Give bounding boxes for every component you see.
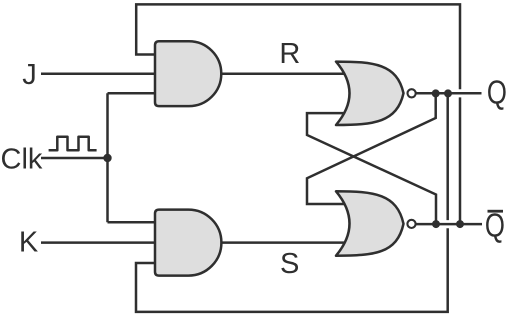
junction dot Clk bbox=[103, 154, 111, 162]
junction dot Q feedback bbox=[444, 89, 452, 97]
wire top feedback from Q-bar to AND A1 top input bbox=[136, 4, 460, 89]
AND gate A2 bbox=[155, 210, 221, 276]
wire Q output bbox=[415, 92, 482, 95]
wire cross-couple Q to NOR G2 input bbox=[307, 93, 436, 204]
NOR gate G1 bbox=[336, 62, 404, 125]
wire Clk input bbox=[41, 157, 108, 160]
wire J input bbox=[41, 72, 160, 75]
svg-text:K: K bbox=[19, 227, 39, 259]
wire Clk branch to AND A1 bbox=[108, 92, 161, 95]
svg-text:J: J bbox=[22, 59, 37, 91]
junction dot Q-bar feedback bbox=[456, 220, 464, 228]
wire K input bbox=[41, 241, 160, 244]
svg-text:Q: Q bbox=[487, 74, 507, 111]
AND gate A1 bbox=[155, 41, 221, 106]
NOR G2 output bubble bbox=[407, 220, 415, 228]
svg-text:Q: Q bbox=[485, 208, 505, 245]
wire R net from AND A1 to NOR G1 bbox=[220, 72, 350, 75]
NOR G1 output bubble bbox=[408, 89, 416, 97]
wire bottom feedback from Q to AND A2 bottom input bbox=[446, 93, 449, 220]
wire Q-bar output bbox=[415, 223, 482, 226]
wire Clk branch to AND A2 bbox=[108, 221, 161, 224]
clock waveform symbol bbox=[49, 137, 97, 150]
wire Clk vertical bus bbox=[106, 93, 109, 222]
junction dot Q cross-couple bbox=[432, 89, 440, 97]
wire S net from AND A2 to NOR G2 bbox=[220, 241, 350, 244]
NOR gate G2 bbox=[336, 191, 404, 255]
svg-text:Clk: Clk bbox=[1, 143, 43, 175]
svg-text:R: R bbox=[279, 38, 300, 70]
wire cross-couple Q-bar to NOR G1 input bbox=[307, 113, 436, 224]
svg-text:S: S bbox=[280, 248, 299, 280]
junction dot Q-bar cross-couple bbox=[432, 220, 440, 228]
Q-bar overline bbox=[488, 210, 504, 213]
